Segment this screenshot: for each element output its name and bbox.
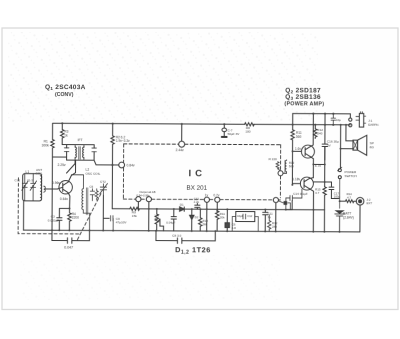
diode label D12 <box>175 245 211 255</box>
IC pin right <box>273 197 278 231</box>
speaker SP <box>353 135 375 155</box>
power switch <box>337 167 357 208</box>
svg-text:300k: 300k <box>42 143 50 147</box>
svg-text:CT2: CT2 <box>100 180 106 184</box>
svg-text:10µF: 10µF <box>237 214 244 218</box>
svg-text:C12: C12 <box>247 214 252 218</box>
svg-text:1.18v: 1.18v <box>292 177 300 181</box>
svg-text:Q1 2SC403A: Q1 2SC403A <box>45 84 86 91</box>
resistor R12 240 <box>314 125 324 139</box>
transistor Q1 <box>52 160 76 209</box>
IC pin out A <box>136 197 141 209</box>
svg-text:L1: L1 <box>26 170 30 174</box>
wire bottom rail <box>24 230 360 232</box>
trimmer CT2 <box>100 180 108 196</box>
capacitor C9 47u <box>111 216 128 231</box>
IC pin 0.7v <box>213 193 220 211</box>
trimmer CT1 <box>14 173 28 200</box>
svg-text:1k: 1k <box>64 133 68 137</box>
interstage coil T1 <box>285 160 295 174</box>
capacitor C11 <box>263 210 273 232</box>
IFT transformer <box>62 138 96 173</box>
svg-text:280: 280 <box>272 225 277 229</box>
IC pin 0.84v <box>119 162 135 168</box>
svg-text:0.047: 0.047 <box>64 245 73 249</box>
svg-text:2.25v: 2.25v <box>58 163 66 167</box>
svg-text:D1: D1 <box>180 203 184 207</box>
svg-text:(POWER AMP): (POWER AMP) <box>284 101 324 107</box>
capacitor C17 100u <box>329 182 341 199</box>
tuning gang box <box>23 168 43 201</box>
resistor R2 6.2k <box>111 124 131 209</box>
wire main top rail <box>53 123 350 125</box>
svg-text:8Ω: 8Ω <box>370 145 375 149</box>
svg-text:0.84v: 0.84v <box>127 163 135 167</box>
IC dashed box <box>123 144 280 200</box>
capacitor C3 0.033 <box>48 208 70 230</box>
svg-text:2.44v: 2.44v <box>176 148 184 152</box>
svg-text:0.94~0.98v: 0.94~0.98v <box>136 193 150 197</box>
svg-text:C1-3: C1-3 <box>27 178 33 182</box>
capacitor C16 30u <box>322 114 339 160</box>
diode D1 <box>180 203 185 212</box>
svg-text:IFT: IFT <box>78 138 83 142</box>
svg-text:0.96v: 0.96v <box>52 181 60 185</box>
battery BATT <box>335 211 354 232</box>
capacitor C8 below rail <box>156 231 215 244</box>
svg-text:SWITCH: SWITCH <box>344 174 356 178</box>
wire L1 to Q1 base <box>45 188 57 190</box>
capacitor C6 <box>89 185 94 201</box>
resistor R 280 <box>268 215 278 232</box>
wire base bias <box>292 151 301 183</box>
pin output label <box>136 190 155 197</box>
wire Q3 collector link <box>314 181 332 183</box>
svg-text:4.7: 4.7 <box>347 195 351 199</box>
resistor R4 2200 <box>68 208 79 230</box>
svg-text:0.7v: 0.7v <box>213 193 219 197</box>
svg-text:2.2µ: 2.2µ <box>194 200 200 204</box>
wire Q2 emitter chain <box>324 146 326 186</box>
svg-text:100: 100 <box>245 130 250 134</box>
svg-text:50µF 3V: 50µF 3V <box>228 132 241 136</box>
svg-text:560: 560 <box>203 222 208 226</box>
wire audio line <box>112 209 324 210</box>
capacitor C10 <box>166 209 176 231</box>
svg-text:BX 201: BX 201 <box>186 185 207 192</box>
capacitor C14 0.1 <box>286 189 308 210</box>
svg-text:D2: D2 <box>195 215 199 219</box>
ghost print-through texture <box>8 32 318 122</box>
resistor R1 300k <box>41 123 67 230</box>
capacitor C5 0.047 below rail <box>52 230 90 249</box>
svg-text:1.9v~3.3v: 1.9v~3.3v <box>116 139 130 143</box>
svg-text:0.64v: 0.64v <box>60 197 68 201</box>
svg-text:EARPH.: EARPH. <box>368 123 379 127</box>
svg-text:C6: C6 <box>89 185 93 189</box>
svg-text:C8 3.0: C8 3.0 <box>172 234 181 238</box>
oscillator coil L2 <box>71 168 101 231</box>
svg-text:15k: 15k <box>132 214 137 218</box>
capacitor C15 10u <box>331 114 341 125</box>
svg-text:R 220: R 220 <box>269 157 278 161</box>
svg-text:4.7v: 4.7v <box>315 164 321 168</box>
svg-text:IC: IC <box>188 168 206 179</box>
transistor Q2 <box>295 114 325 178</box>
wire tuning to rail <box>23 201 25 230</box>
svg-text:(CONV): (CONV) <box>55 92 74 98</box>
svg-text:C1-1: C1-1 <box>14 178 20 182</box>
module box with capacitor <box>232 211 258 231</box>
wire CT2 to C9 <box>103 195 109 230</box>
svg-text:2200: 2200 <box>72 216 79 220</box>
diode D2 <box>190 209 199 231</box>
IC pin 1v <box>204 193 209 231</box>
svg-text:COIL: COIL <box>36 172 44 176</box>
header text Q2 Q3 <box>284 87 324 107</box>
svg-text:Q3 2SB136: Q3 2SB136 <box>285 94 321 101</box>
resistor R11 560 <box>291 130 302 152</box>
resistor R10 <box>199 209 209 231</box>
svg-text:560: 560 <box>296 135 302 139</box>
svg-text:20k: 20k <box>220 216 225 220</box>
resistor R6 <box>95 189 98 200</box>
svg-text:0.04µF: 0.04µF <box>166 221 175 225</box>
IC label <box>186 168 207 191</box>
svg-text:4.7: 4.7 <box>315 191 319 195</box>
svg-text:D1,2 1T26: D1,2 1T26 <box>175 245 211 255</box>
AGC dashed feedback <box>18 178 102 240</box>
wire audio right <box>286 200 292 209</box>
svg-text:5k: 5k <box>155 217 159 221</box>
resistor R14 4.7 vertical <box>315 187 326 232</box>
resistor R8 100 series <box>245 123 255 134</box>
trimmer CT2b <box>27 174 37 201</box>
svg-text:1.6v: 1.6v <box>295 147 301 151</box>
resistor R220 label <box>269 157 278 161</box>
svg-text:0.033µF: 0.033µF <box>48 218 60 222</box>
svg-text:240: 240 <box>317 131 322 135</box>
transistor Q3 <box>292 177 314 232</box>
IC pin out B <box>146 197 151 231</box>
svg-text:C14 0.1µF: C14 0.1µF <box>293 192 308 196</box>
svg-text:EXT: EXT <box>366 201 372 205</box>
svg-text:OSC COIL: OSC COIL <box>86 172 101 176</box>
capacitor C13 <box>279 201 291 210</box>
svg-text:1v: 1v <box>205 193 209 197</box>
wire jack to speaker <box>346 125 353 141</box>
capacitor C12 <box>194 197 200 210</box>
resistor R3 1k <box>60 123 68 144</box>
svg-text:47µ10V: 47µ10V <box>116 221 128 225</box>
wire power rail <box>293 113 351 115</box>
svg-text:10µ: 10µ <box>336 118 341 122</box>
header text Q1 <box>45 84 86 98</box>
capacitor C7 50u to ground <box>221 124 240 138</box>
wire IFT secondary to IC pin <box>94 160 119 165</box>
resistor R16 4.7 <box>340 192 357 202</box>
volume VR 5k <box>155 209 164 231</box>
wire speaker to switch <box>340 125 353 169</box>
resistor R9 15k <box>130 207 140 218</box>
svg-text:(2.84V): (2.84V) <box>343 216 354 220</box>
resistor R220 body <box>276 162 280 171</box>
IC pin drive <box>278 171 287 176</box>
svg-text:560: 560 <box>289 164 294 168</box>
capacitor C electrolytic 3.0 <box>225 209 236 231</box>
IC pin 2.44v <box>176 124 185 152</box>
resistor R 20k <box>215 211 225 231</box>
wire power corner <box>292 114 294 130</box>
earphone jack J1 <box>349 112 380 128</box>
jack J2 <box>356 197 372 232</box>
antenna coil L1 <box>40 176 45 201</box>
